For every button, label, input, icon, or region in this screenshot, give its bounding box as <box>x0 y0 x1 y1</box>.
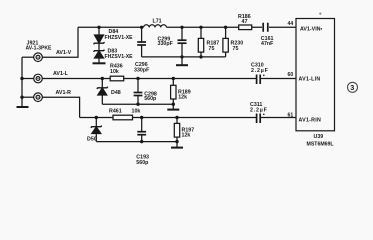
resistor R186 <box>239 25 252 30</box>
svg-text:AV1-V: AV1-V <box>56 50 72 56</box>
diode D50 zener <box>91 118 102 142</box>
svg-text:L71: L71 <box>153 19 162 25</box>
node video D84 tap <box>97 26 100 29</box>
svg-text:AV1-RIN: AV1-RIN <box>299 117 322 123</box>
svg-text:2.2µF: 2.2µF <box>250 107 268 113</box>
node rail R187 <box>199 55 202 58</box>
capacitor C296 <box>137 27 146 57</box>
diode D83 zener <box>93 50 106 64</box>
resistor R461 <box>113 115 133 120</box>
node video R187 tap <box>199 26 202 29</box>
resistor R189 <box>171 79 176 105</box>
node AV1L R189 tap <box>172 77 175 80</box>
wire bus to AV1-R jack <box>22 96 34 98</box>
svg-text:560p: 560p <box>144 96 157 102</box>
node bus-AV1R <box>20 96 23 99</box>
ground video rail <box>176 57 188 65</box>
svg-text:75: 75 <box>233 46 239 52</box>
node video C299 tap <box>180 26 183 29</box>
node railL C298 <box>136 103 139 106</box>
node bus-AV1L <box>20 77 23 80</box>
svg-text:AV1-R: AV1-R <box>56 90 72 96</box>
diode D48 zener <box>97 79 108 105</box>
svg-text:AV1-LIN: AV1-LIN <box>299 76 321 82</box>
ground AV1-R rail <box>171 142 183 148</box>
diode D84 zener <box>94 27 105 50</box>
svg-text:FHZSV1-XE: FHZSV1-XE <box>105 35 134 41</box>
svg-text:AV1-L: AV1-L <box>53 71 69 77</box>
node AV1L C298 tap <box>136 77 139 80</box>
svg-text:75: 75 <box>209 46 215 52</box>
svg-text:10k: 10k <box>132 109 141 115</box>
svg-text:47: 47 <box>242 19 248 25</box>
node rail C299/gnd <box>180 55 183 58</box>
node circled 3 page mark <box>348 82 358 92</box>
node speck above U39 <box>319 13 321 15</box>
wire video top line <box>78 26 296 28</box>
svg-text:D50: D50 <box>87 137 97 143</box>
capacitor C299 <box>178 27 187 57</box>
svg-text:47nF: 47nF <box>261 41 274 47</box>
ground AV1-L rail <box>167 104 179 109</box>
node railR R197 <box>175 140 178 143</box>
wire AV1-R ground rail <box>96 141 177 143</box>
wire bus to AV1-L jack <box>22 78 34 80</box>
wire video ground rail <box>142 56 226 58</box>
svg-text:MST6M69L: MST6M69L <box>307 141 335 147</box>
resistor R197 <box>174 118 179 142</box>
svg-text:2.2µF: 2.2µF <box>251 68 269 74</box>
wire AV1-L ground rail <box>102 103 173 105</box>
resistor R436 <box>110 76 124 81</box>
capacitor C161 <box>263 23 268 32</box>
svg-text:U39: U39 <box>314 134 324 140</box>
svg-text:AV1-VIN▪: AV1-VIN▪ <box>300 26 323 32</box>
connector J921 AV1-V jack <box>34 53 43 62</box>
svg-text:44: 44 <box>288 21 294 27</box>
capacitor C311 <box>257 114 265 124</box>
svg-text:61: 61 <box>288 112 294 118</box>
svg-text:AV-1-3PKE: AV-1-3PKE <box>26 46 53 52</box>
svg-text:60: 60 <box>288 72 294 78</box>
svg-text:3: 3 <box>350 83 354 92</box>
svg-text:R461: R461 <box>109 109 122 115</box>
svg-text:10k: 10k <box>110 69 119 75</box>
svg-text:D48: D48 <box>111 90 121 96</box>
connector J921 AV1-R jack <box>34 93 43 102</box>
node AV1R D50 tap <box>95 116 98 119</box>
node railL R189 <box>172 103 175 106</box>
svg-text:FHZSV1-XE: FHZSV1-XE <box>105 54 134 60</box>
ground bar below D83 <box>93 62 106 64</box>
node railR C193 <box>140 140 143 143</box>
svg-text:330pF: 330pF <box>134 68 150 74</box>
wire AV1-R line <box>42 97 296 117</box>
resistor R230 <box>223 27 228 57</box>
resistor R187 <box>198 27 203 57</box>
node AV1R C193 tap <box>140 116 143 119</box>
svg-text:12k: 12k <box>182 133 191 139</box>
svg-text:12k: 12k <box>178 95 187 101</box>
node AV1L D48 tap <box>101 77 104 80</box>
wire AV1-V to top line <box>42 27 78 57</box>
inductor L71 <box>144 25 167 28</box>
node AV1R R197 tap <box>175 116 178 119</box>
svg-text:560p: 560p <box>136 160 149 166</box>
ground bar left bus <box>17 106 29 108</box>
node video R230 tap <box>224 26 227 29</box>
svg-text:330pF: 330pF <box>158 41 174 47</box>
wire AV1-L line <box>42 78 296 80</box>
wire left ground bus J921 shell <box>21 57 23 106</box>
node video C296 tap <box>140 26 143 29</box>
connector J921 AV1-L jack <box>34 74 43 83</box>
capacitor C298 <box>134 79 143 105</box>
wire bus to AV1-V jack <box>22 56 34 58</box>
op-amp U39 IC box <box>296 19 335 131</box>
capacitor C310 <box>257 75 265 85</box>
capacitor C193 <box>137 118 146 142</box>
